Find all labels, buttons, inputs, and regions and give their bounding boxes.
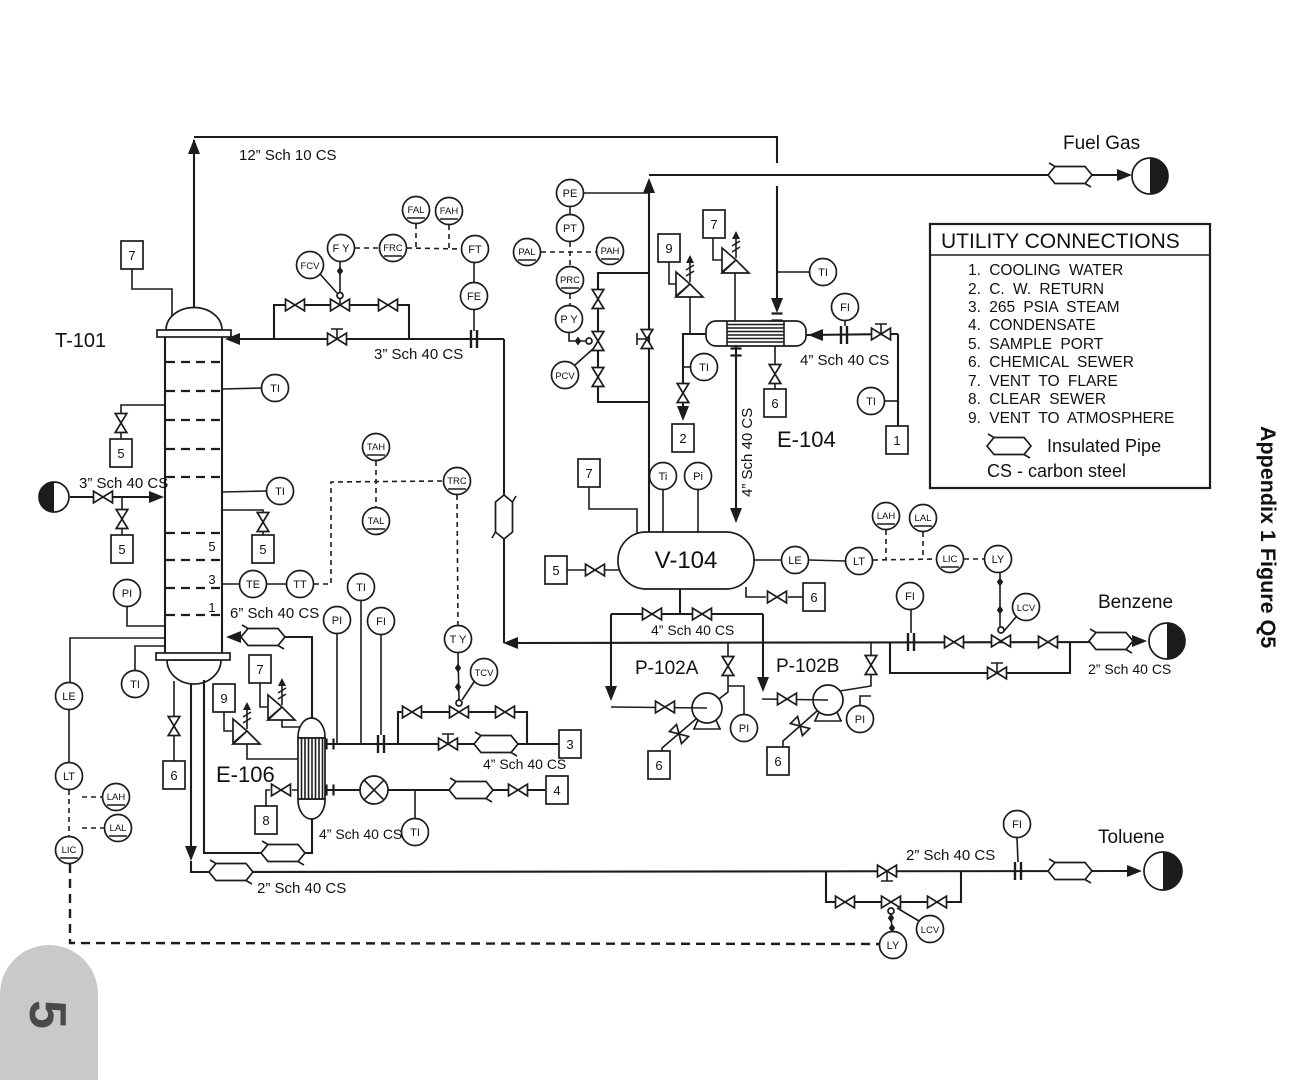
control valve PCV	[592, 332, 604, 351]
instrument PCV	[552, 348, 595, 389]
instrument FAL	[403, 197, 430, 249]
svg-text:5: 5	[208, 539, 215, 554]
svg-text:1: 1	[208, 600, 215, 615]
instrument LAL column	[82, 815, 132, 842]
heat exchanger E-106	[298, 718, 325, 819]
svg-text:4” Sch 40 CS: 4” Sch 40 CS	[483, 756, 566, 772]
valve above PCV	[592, 290, 604, 309]
wire reflux riser	[503, 339, 505, 643]
svg-text:6” Sch 40 CS: 6” Sch 40 CS	[230, 605, 319, 622]
valve condensate	[509, 784, 528, 796]
orifice benzene FI	[908, 633, 914, 651]
column trays	[166, 362, 221, 615]
wire main product header	[503, 637, 1138, 649]
terminal feed	[39, 482, 69, 512]
svg-text:6: 6	[774, 754, 781, 769]
instrument TAH	[363, 434, 390, 508]
instrument TI E-104 feed	[777, 259, 837, 286]
insulated pipe symbol fuel gas	[1048, 163, 1092, 187]
utility box 8	[255, 806, 277, 834]
svg-text:TE: TE	[246, 579, 260, 591]
orifice steam	[378, 735, 384, 753]
instrument TY	[445, 626, 472, 701]
utility box 1	[886, 426, 908, 454]
valve sample feed	[116, 510, 128, 529]
svg-text:1. COOLING WATER: 1. COOLING WATER	[968, 262, 1123, 279]
svg-text:P-102B: P-102B	[776, 656, 839, 677]
wire toluene bypass	[826, 871, 961, 902]
svg-text:LT: LT	[853, 556, 865, 568]
wire sample right	[222, 510, 263, 535]
wire reflux line into column top	[225, 333, 504, 345]
svg-text:LAH: LAH	[877, 511, 896, 522]
svg-text:12” Sch 10 CS: 12” Sch 10 CS	[239, 147, 337, 164]
relief valve PSV to atmosphere	[669, 255, 703, 334]
instrument PE	[557, 180, 650, 215]
utility box 6 V-104 drain	[788, 583, 825, 611]
svg-text:TI: TI	[275, 486, 285, 498]
insulated pipe symbol toluene	[1048, 859, 1092, 883]
valve benzene block right	[1039, 636, 1058, 648]
svg-text:CS - carbon steel: CS - carbon steel	[987, 461, 1126, 481]
svg-text:LT: LT	[63, 771, 75, 783]
valve TCV bypass right	[496, 706, 515, 718]
instrument TI water inlet	[858, 388, 899, 415]
svg-text:FI: FI	[1012, 819, 1022, 831]
wire E-106 steam line	[325, 743, 559, 745]
valve P-102B suction	[778, 693, 797, 705]
svg-text:TI: TI	[818, 267, 828, 279]
valve bottom outlet left	[643, 608, 662, 620]
instrument Ti	[650, 463, 677, 534]
svg-text:FAH: FAH	[440, 206, 459, 217]
svg-text:8: 8	[262, 813, 269, 828]
svg-text:5: 5	[18, 1000, 76, 1029]
svg-text:LY: LY	[887, 940, 900, 952]
instrument TT	[287, 481, 444, 598]
svg-text:7: 7	[256, 662, 263, 677]
terminal fuel gas	[1132, 158, 1168, 194]
flange E-104 feed nozzle	[772, 314, 783, 321]
wire E-106 vapor return to column	[226, 631, 312, 719]
wire feed line	[70, 491, 164, 503]
label Toluene	[1098, 827, 1165, 848]
utility box 6 P-102B	[767, 747, 789, 775]
svg-text:Ti: Ti	[659, 471, 668, 483]
instrument FI benzene	[897, 583, 924, 634]
mixer symbol	[360, 776, 388, 804]
utility box 9	[658, 234, 680, 262]
instrument TE	[222, 571, 286, 598]
instrument FCV	[297, 252, 338, 294]
svg-text:LAL: LAL	[110, 823, 127, 834]
wire reflux bypass loop	[274, 305, 409, 339]
svg-text:3. 265 PSIA STEAM: 3. 265 PSIA STEAM	[968, 299, 1120, 316]
svg-text:6. CHEMICAL SEWER: 6. CHEMICAL SEWER	[968, 354, 1134, 371]
instrument PAH	[597, 238, 624, 265]
label Fuel Gas	[1063, 133, 1140, 154]
terminal toluene	[1127, 852, 1182, 890]
utility box 7	[703, 210, 725, 238]
label Benzene	[1098, 592, 1173, 613]
utility box 7 V-104	[578, 459, 637, 533]
svg-text:1: 1	[893, 433, 900, 448]
svg-text:TI: TI	[130, 679, 140, 691]
instrument LIC column	[56, 837, 83, 864]
label 2" Sch 40 CS toluene	[906, 847, 995, 864]
insulated pipe symbol steam	[474, 732, 518, 756]
svg-text:3” Sch 40 CS: 3” Sch 40 CS	[79, 475, 168, 492]
vessel V-104	[618, 532, 754, 589]
svg-text:Fuel Gas: Fuel Gas	[1063, 133, 1140, 154]
valve E-106 8 line	[272, 784, 291, 796]
control valve FCV	[331, 293, 350, 311]
insulated pipe symbol on riser	[492, 495, 516, 539]
svg-text:LAL: LAL	[915, 513, 932, 524]
utility box 4	[546, 776, 568, 804]
valve toluene bypass left	[836, 896, 855, 908]
svg-text:Toluene: Toluene	[1098, 827, 1165, 848]
utility box 7 at column top	[121, 241, 172, 316]
terminal benzene	[1132, 623, 1185, 659]
svg-text:6: 6	[771, 396, 778, 411]
svg-text:8. CLEAR SEWER: 8. CLEAR SEWER	[968, 391, 1106, 408]
control valve LCV benzene	[992, 635, 1011, 647]
relief valve PSV E-106 atmosphere	[224, 702, 298, 759]
insulated pipe symbol benzene	[1089, 629, 1133, 653]
svg-text:4” Sch 40 CS: 4” Sch 40 CS	[800, 352, 889, 369]
valve sample V-104	[586, 564, 605, 576]
valve P-102A drain	[669, 724, 688, 743]
utility box 6	[764, 389, 786, 417]
valve P-102B discharge	[865, 656, 877, 675]
wire V-104 bottom outlet	[605, 589, 769, 701]
valve TCV bypass left	[403, 706, 422, 718]
control valve TCV	[450, 700, 469, 718]
instrument LIC V-104	[937, 546, 985, 573]
svg-text:4: 4	[553, 783, 560, 798]
label 4" Sch 40 CS vertical	[739, 408, 756, 497]
svg-text:PRC: PRC	[560, 275, 580, 286]
instrument TAL	[363, 508, 390, 535]
utility box 6 P-102A	[648, 751, 670, 779]
valve benzene bypass	[988, 663, 1007, 679]
svg-text:PCV: PCV	[555, 371, 575, 382]
wire P-102A drain	[662, 719, 696, 752]
svg-text:5: 5	[118, 542, 125, 557]
instrument LY benzene	[985, 546, 1012, 634]
label 3" Sch 40 CS top	[374, 346, 463, 363]
instrument TCV	[462, 659, 498, 701]
instrument LAH column	[82, 784, 130, 811]
svg-text:F Y: F Y	[333, 243, 351, 255]
valve bypass left	[286, 299, 305, 311]
wire P-102B discharge	[840, 643, 871, 691]
svg-text:FI: FI	[840, 302, 850, 314]
instrument LY toluene	[880, 914, 907, 959]
svg-text:LIC: LIC	[943, 554, 958, 565]
svg-text:3: 3	[566, 737, 573, 752]
svg-text:TI: TI	[270, 383, 280, 395]
instrument LT V-104	[846, 548, 937, 575]
instrument FI water inlet	[832, 294, 859, 327]
svg-text:3” Sch 40 CS: 3” Sch 40 CS	[374, 346, 463, 363]
instrument Pi	[685, 463, 712, 534]
wire fuel gas header	[649, 169, 1132, 181]
valve sample right	[257, 513, 269, 532]
svg-text:PAH: PAH	[601, 246, 620, 257]
utility box 9 E-106	[213, 684, 235, 712]
instrument TRC	[444, 468, 471, 626]
valve P-102A suction	[656, 701, 675, 713]
label E-104	[777, 427, 836, 452]
instrument FI steam	[368, 608, 395, 736]
insulated pipe symbol E-106 bottom	[261, 841, 305, 865]
label 12" Sch 10 CS	[239, 147, 337, 164]
label P-102A	[635, 658, 699, 679]
valve water outlet	[677, 384, 689, 403]
wire TCV bypass	[398, 712, 527, 744]
svg-text:FAL: FAL	[408, 205, 425, 216]
svg-text:Insulated Pipe: Insulated Pipe	[1047, 436, 1161, 456]
valve feed	[94, 491, 113, 503]
page tab gray	[0, 945, 98, 1080]
svg-text:PI: PI	[122, 588, 132, 600]
svg-text:PT: PT	[563, 223, 577, 235]
wire sample feed	[121, 497, 123, 535]
valve benzene block left	[945, 636, 964, 648]
utility box 6 column	[163, 761, 185, 789]
svg-text:5: 5	[259, 542, 266, 557]
svg-text:2” Sch 40 CS: 2” Sch 40 CS	[1088, 661, 1171, 677]
label 6" Sch 40 CS	[230, 605, 319, 622]
label 3" Sch 40 CS feed	[79, 475, 168, 492]
utility box 5 right	[252, 535, 274, 563]
heat exchanger E-104	[706, 321, 806, 346]
flange condensate nozzle E-106	[327, 785, 334, 796]
valve on reflux line	[328, 329, 347, 345]
instrument PAL	[514, 239, 597, 266]
instrument FAH	[436, 198, 463, 249]
instrument FE	[461, 283, 488, 332]
instrument TI column bottom	[122, 646, 166, 698]
svg-text:5: 5	[117, 446, 124, 461]
instrument TI condensate	[402, 790, 429, 846]
instrument TI on water outlet	[683, 354, 718, 381]
svg-text:P-102A: P-102A	[635, 658, 699, 679]
instrument PI steam	[324, 607, 351, 745]
svg-text:5. SAMPLE PORT: 5. SAMPLE PORT	[968, 336, 1104, 353]
label T-101	[55, 330, 106, 352]
svg-text:E-106: E-106	[216, 762, 275, 787]
svg-text:7: 7	[585, 466, 592, 481]
instrument PI P-102B	[847, 696, 874, 733]
svg-text:Appendix 1 Figure Q5: Appendix 1 Figure Q5	[1256, 426, 1280, 648]
svg-text:9. VENT TO ATMOSPHERE: 9. VENT TO ATMOSPHERE	[968, 410, 1174, 427]
svg-text:PAL: PAL	[518, 247, 535, 258]
svg-text:9: 9	[665, 241, 672, 256]
instrument LE column	[56, 638, 166, 710]
svg-text:Pi: Pi	[693, 471, 703, 483]
label P-102B	[776, 656, 839, 677]
wire E-104 drain	[774, 346, 776, 389]
valve toluene main	[878, 865, 897, 881]
instrument LAH V-104	[873, 503, 900, 560]
svg-text:Benzene: Benzene	[1098, 592, 1173, 613]
svg-text:TI: TI	[866, 396, 876, 408]
wire E-106 condensate line	[325, 789, 545, 791]
svg-text:6: 6	[655, 758, 662, 773]
insulated pipe symbol bottoms	[209, 860, 253, 884]
svg-text:TRC: TRC	[447, 476, 467, 487]
instrument FRC	[355, 235, 461, 262]
svg-text:3: 3	[208, 572, 215, 587]
instrument TI column upper	[222, 375, 289, 402]
svg-text:4” Sch 40 CS: 4” Sch 40 CS	[319, 826, 402, 842]
pump P-102B	[762, 685, 843, 721]
instrument LT column	[56, 710, 83, 836]
instrument LCV benzene	[1004, 594, 1040, 632]
svg-text:FRC: FRC	[383, 243, 403, 254]
valve toluene bypass right	[928, 896, 947, 908]
valve steam main	[439, 734, 458, 750]
wire V-104 drain	[746, 587, 766, 597]
svg-text:4” Sch 40 CS: 4” Sch 40 CS	[739, 408, 756, 497]
valve bottom outlet right	[693, 608, 712, 620]
utility box 5 feed	[111, 535, 133, 563]
svg-text:FT: FT	[468, 244, 482, 256]
label 4" Sch 40 CS E-104	[800, 352, 889, 369]
svg-text:LE: LE	[62, 691, 75, 703]
svg-text:LIC: LIC	[62, 845, 77, 856]
wire P-102B drain	[783, 711, 817, 747]
svg-text:FI: FI	[905, 591, 915, 603]
instrument TI steam	[348, 574, 375, 745]
svg-text:PI: PI	[332, 615, 342, 627]
svg-text:PE: PE	[563, 188, 578, 200]
wire PCV bypass	[598, 273, 649, 402]
wire E-104 water outlet	[677, 334, 706, 421]
svg-text:6: 6	[810, 590, 817, 605]
svg-text:T-101: T-101	[55, 330, 106, 352]
column T-101 shell	[156, 308, 231, 685]
svg-text:FCV: FCV	[301, 261, 321, 272]
svg-text:LE: LE	[788, 555, 801, 567]
wire E-104 condensate to V-104	[730, 346, 742, 523]
wire column bottoms line	[185, 684, 1132, 872]
relief valve PSV to flare	[713, 231, 749, 321]
label Appendix 1 Figure Q5	[1256, 426, 1280, 648]
instrument PRC	[557, 267, 584, 306]
label 2" Sch 40 CS benzene	[1088, 661, 1171, 677]
orifice water inlet	[841, 326, 847, 344]
svg-text:TI: TI	[356, 582, 366, 594]
flange condensate nozzle	[731, 349, 742, 356]
instrument LAL V-104	[910, 505, 937, 560]
instrument LE V-104	[754, 547, 845, 574]
utility box 5 sample V-104	[545, 556, 620, 584]
svg-text:FI: FI	[376, 616, 386, 628]
instrument TI column mid	[222, 478, 294, 505]
utility box 5 upper	[110, 439, 132, 467]
utility box 3	[559, 730, 581, 758]
svg-text:LCV: LCV	[921, 925, 940, 936]
svg-text:TT: TT	[293, 579, 307, 591]
utility box 2	[672, 424, 694, 452]
valve P-102A discharge	[722, 657, 734, 676]
instrument PI P-102A	[728, 686, 758, 742]
instrument FI toluene	[1004, 811, 1031, 863]
instrument LCV toluene	[897, 908, 944, 943]
svg-text:4. CONDENSATE: 4. CONDENSATE	[968, 317, 1096, 334]
pump P-102A	[611, 693, 722, 729]
svg-text:2” Sch 40 CS: 2” Sch 40 CS	[906, 847, 995, 864]
valve on riser with T	[637, 330, 653, 349]
wire LIC signal to toluene LY	[70, 864, 879, 944]
svg-text:2: 2	[679, 431, 686, 446]
orifice toluene	[1015, 862, 1021, 880]
wire E-106 vent to clear sewer	[266, 790, 298, 806]
svg-text:TAL: TAL	[368, 516, 385, 527]
svg-text:T Y: T Y	[450, 634, 467, 646]
svg-text:7. VENT TO FLARE: 7. VENT TO FLARE	[968, 373, 1118, 390]
svg-text:TI: TI	[410, 827, 420, 839]
instrument PY	[556, 306, 593, 346]
valve P-102B drain	[790, 716, 809, 735]
wire benzene bypass	[890, 642, 1070, 673]
svg-text:LAH: LAH	[107, 792, 126, 803]
label 4" Sch 40 CS V-104	[651, 622, 734, 638]
svg-text:5: 5	[552, 563, 559, 578]
svg-text:FE: FE	[467, 291, 481, 303]
svg-text:7: 7	[128, 248, 135, 263]
valve V-104 drain	[768, 591, 787, 603]
instrument PT	[557, 215, 584, 267]
svg-text:4” Sch 40 CS: 4” Sch 40 CS	[651, 622, 734, 638]
wire column drain to 6	[173, 681, 175, 761]
instrument FY	[328, 235, 355, 293]
label E-106	[216, 762, 275, 787]
valve column drain	[168, 717, 180, 736]
wire P-102A discharge	[719, 643, 728, 699]
valve drain	[769, 365, 781, 384]
svg-text:TAH: TAH	[367, 442, 385, 453]
svg-text:TCV: TCV	[475, 668, 495, 679]
label 2" Sch 40 CS bottoms	[257, 880, 346, 897]
orifice FE	[471, 330, 477, 348]
valve water inlet	[872, 324, 891, 340]
valve bypass right	[379, 299, 398, 311]
control valve LCV toluene	[882, 896, 901, 914]
svg-text:2. C. W. RETURN: 2. C. W. RETURN	[968, 281, 1104, 298]
wire E-106 bottoms return	[204, 680, 312, 853]
wire overhead vapor line 12in	[188, 137, 783, 313]
wire E-104 water inlet	[806, 329, 898, 426]
wire sample upper	[121, 405, 165, 439]
svg-text:PI: PI	[855, 714, 865, 726]
svg-text:V-104: V-104	[655, 547, 718, 574]
svg-text:PI: PI	[739, 723, 749, 735]
tray numbers 5 3 1	[208, 539, 215, 615]
insulated pipe symbol vapor return	[241, 625, 285, 649]
valve sample upper	[115, 414, 127, 433]
svg-text:7: 7	[710, 217, 717, 232]
svg-text:2” Sch 40 CS: 2” Sch 40 CS	[257, 880, 346, 897]
insulated pipe symbol condensate	[449, 778, 493, 802]
label 4" Sch 40 CS steam	[483, 756, 566, 772]
svg-text:9: 9	[220, 691, 227, 706]
relief valve PSV E-106 flare	[260, 678, 300, 727]
